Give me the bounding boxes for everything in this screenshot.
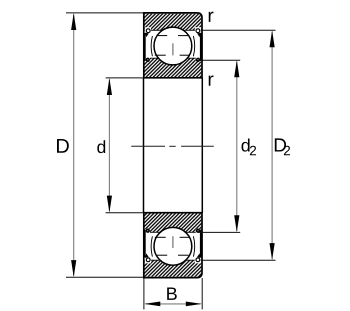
bore line right — [201, 78, 203, 213]
left shield anchor circle (bottom) — [145, 253, 149, 258]
arrow B left — [144, 302, 160, 307]
inner ring shoulder line — [145, 57, 202, 59]
right shield Z (top section, bar at face) — [200, 33, 203, 61]
right raceway groove arc (bottom) — [193, 236, 194, 256]
label d — [97, 140, 105, 153]
extension line D2 top — [201, 29, 276, 31]
label D — [57, 139, 69, 153]
arrow D bottom — [71, 260, 76, 277]
left raceway groove arc (bottom) — [151, 236, 152, 256]
right shield Z (bottom section, bar at face) — [200, 230, 203, 258]
extension line D top — [66, 12, 144, 14]
arrow B right — [186, 302, 202, 307]
bearing bottom section outline — [144, 213, 202, 278]
arrow d top — [107, 78, 112, 95]
label r (inner ring corner radius) — [209, 75, 214, 85]
extension line B right — [201, 278, 203, 309]
left shield Z (bottom section, bar at face) — [143, 230, 146, 258]
shield groove recesses (white) — [145, 27, 151, 34]
arrow d2 top — [234, 60, 239, 77]
dimension line d — [108, 79, 110, 211]
dimension line D — [73, 15, 75, 276]
dimension line B — [146, 303, 201, 305]
raceway shoulder dashes over ball — [157, 35, 167, 37]
arrow D2 bottom — [270, 243, 275, 260]
shield groove recesses bottom (white) — [145, 256, 151, 263]
inner ring hatch (top band of bottom section) — [145, 214, 202, 233]
left shield foot — [146, 58, 150, 62]
inner ring hatch (bottom band) — [145, 58, 202, 77]
left shield anchor circle — [145, 33, 149, 38]
dimension line d2 — [236, 62, 238, 231]
outer ring shoulder line (bottom) — [145, 259, 202, 261]
right shield anchor circle (bottom) — [197, 253, 201, 258]
outer ring hatch (bottom band) — [145, 260, 202, 277]
extension line d2 bottom — [198, 231, 240, 233]
extension line D bottom — [66, 276, 144, 278]
extension line d bottom — [106, 212, 145, 214]
extension line D2 bottom — [201, 259, 276, 261]
left shield Z (top section, bar at face) — [143, 33, 146, 61]
ball (bottom) — [154, 227, 192, 265]
ball (top) — [154, 27, 192, 65]
label B — [167, 288, 177, 300]
ball centre dash (vertical, bottom) — [172, 236, 174, 248]
label D2 — [275, 138, 286, 151]
ball centre dash (vertical) — [172, 43, 174, 55]
right shield foot — [196, 58, 200, 62]
bearing top section outline (outer+inner ring cross-section) — [144, 13, 202, 78]
bore line left — [143, 78, 145, 213]
extension line B left — [143, 278, 145, 309]
left shield foot (bottom) — [146, 229, 150, 233]
inner ring shoulder line (bottom) — [145, 231, 202, 233]
dimension line D2 — [271, 32, 273, 259]
outer ring hatch (top band) — [145, 14, 202, 31]
arrow d bottom — [107, 196, 112, 213]
right shield anchor circle — [197, 33, 201, 38]
arrow D2 top — [270, 30, 275, 47]
label d2 — [241, 138, 249, 151]
left raceway groove arc (top) — [151, 36, 152, 56]
extension line d2 top — [200, 59, 240, 61]
centerline axis — [131, 145, 165, 147]
raceway shoulder dashes over ball (bottom) — [157, 254, 167, 256]
extension line d top — [106, 77, 145, 79]
arrow d2 bottom — [234, 215, 239, 232]
right raceway groove arc (top) — [193, 36, 194, 56]
label r (outer ring corner radius) — [209, 12, 214, 22]
outer ring shoulder line — [145, 29, 202, 31]
arrow D top — [71, 13, 76, 30]
right shield foot (bottom) — [196, 229, 200, 233]
